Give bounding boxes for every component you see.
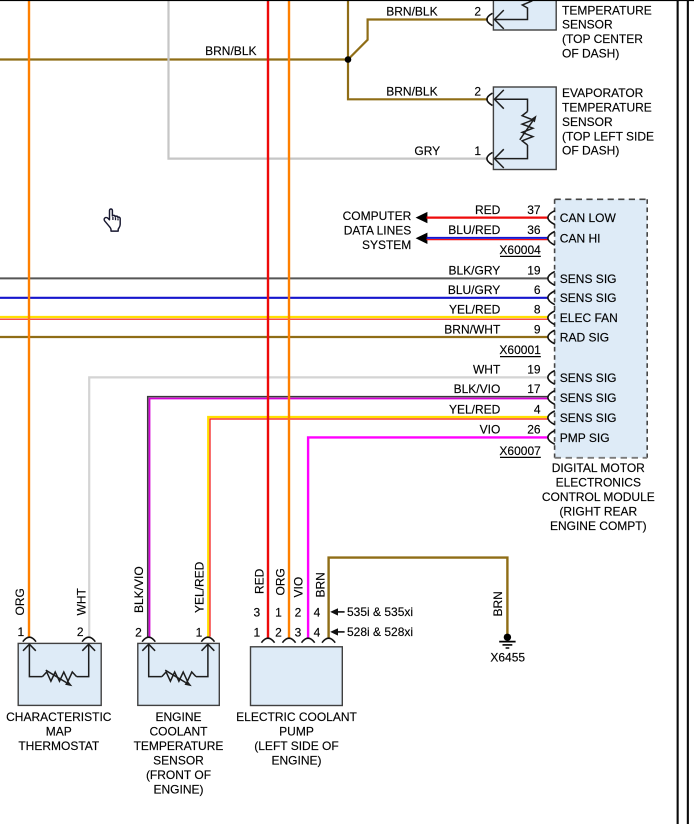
wire BRN/BLK to evaporator sensor pin 2 [348, 60, 488, 100]
svg-text:BRN/BLK: BRN/BLK [386, 4, 437, 18]
svg-text:ORG: ORG [274, 568, 288, 595]
svg-text:SENS SIG: SENS SIG [560, 391, 617, 405]
svg-text:SENSOR: SENSOR [153, 754, 204, 768]
svg-text:2: 2 [474, 4, 481, 18]
svg-text:ENGINE COMPT): ENGINE COMPT) [550, 519, 647, 533]
svg-text:9: 9 [534, 322, 541, 336]
wire VIO PMP SIG to pump pin 3 [308, 437, 548, 637]
svg-text:ELECTRONICS: ELECTRONICS [556, 476, 641, 490]
connector X60001 [499, 343, 541, 357]
svg-text:BRN: BRN [313, 572, 327, 597]
svg-text:26: 26 [527, 423, 541, 437]
svg-text:ENGINE): ENGINE) [271, 754, 321, 768]
svg-text:4: 4 [314, 625, 321, 639]
svg-text:COMPUTER: COMPUTER [343, 209, 412, 223]
ground X6455 [490, 634, 525, 665]
svg-text:DATA LINES: DATA LINES [344, 223, 412, 237]
svg-text:SENS SIG: SENS SIG [560, 272, 617, 286]
svg-text:WHT: WHT [473, 363, 501, 377]
wire BRN pump pin 4 to ground [329, 558, 508, 638]
svg-text:1: 1 [196, 626, 203, 640]
svg-text:4: 4 [534, 402, 541, 416]
svg-text:SENSOR: SENSOR [562, 115, 613, 129]
svg-text:RAD SIG: RAD SIG [560, 330, 609, 344]
svg-text:SYSTEM: SYSTEM [362, 238, 411, 252]
svg-text:2: 2 [135, 626, 142, 640]
svg-text:19: 19 [527, 363, 541, 377]
node 528i & 528xi pin arrow [330, 625, 413, 639]
temperature sensor (top center of dash), partially visible [487, 0, 652, 61]
svg-text:ELECTRIC COOLANT: ELECTRIC COOLANT [236, 710, 357, 724]
svg-text:4: 4 [314, 605, 321, 619]
svg-text:ORG: ORG [13, 588, 27, 615]
svg-text:BRN/WHT: BRN/WHT [444, 322, 501, 336]
svg-text:BRN: BRN [491, 591, 505, 616]
svg-text:(LEFT SIDE OF: (LEFT SIDE OF [254, 739, 338, 753]
electric coolant pump [236, 605, 357, 767]
svg-text:OF DASH): OF DASH) [562, 144, 619, 158]
svg-text:TEMPERATURE: TEMPERATURE [562, 3, 652, 17]
svg-text:2: 2 [474, 85, 481, 99]
svg-text:PMP SIG: PMP SIG [560, 431, 610, 445]
svg-text:VIO: VIO [291, 577, 305, 598]
svg-text:8: 8 [534, 302, 541, 316]
svg-text:535i & 535xi: 535i & 535xi [347, 605, 413, 619]
wire ORG to pump [288, 0, 290, 638]
svg-text:3: 3 [254, 605, 261, 619]
svg-text:CAN HI: CAN HI [560, 232, 601, 246]
svg-text:BLK/VIO: BLK/VIO [454, 382, 501, 396]
svg-text:ELEC FAN: ELEC FAN [560, 311, 618, 325]
wire RED to pump [267, 0, 269, 638]
svg-text:X60004: X60004 [499, 243, 541, 257]
svg-text:DIGITAL MOTOR: DIGITAL MOTOR [552, 461, 645, 475]
svg-text:BLU/GRY: BLU/GRY [448, 283, 500, 297]
connector X60004 [499, 243, 541, 257]
svg-text:(FRONT OF: (FRONT OF [146, 768, 211, 782]
svg-text:GRY: GRY [414, 144, 440, 158]
svg-text:BLU/RED: BLU/RED [448, 223, 500, 237]
svg-text:1: 1 [474, 144, 481, 158]
svg-text:TEMPERATURE: TEMPERATURE [562, 101, 652, 115]
svg-text:1: 1 [18, 625, 25, 639]
mouse cursor (hand pointer) [104, 209, 120, 231]
svg-text:X60001: X60001 [499, 343, 541, 357]
svg-text:ENGINE): ENGINE) [153, 783, 203, 797]
svg-text:17: 17 [527, 382, 541, 396]
DME module caption [542, 461, 655, 533]
svg-text:VIO: VIO [480, 423, 501, 437]
svg-text:X6455: X6455 [490, 651, 525, 665]
evaporator temperature sensor [487, 86, 654, 169]
svg-text:2: 2 [77, 625, 84, 639]
wire BLK/GRY SENS SIG [0, 277, 549, 279]
svg-text:BRN/BLK: BRN/BLK [205, 44, 256, 58]
svg-text:(TOP LEFT SIDE: (TOP LEFT SIDE [562, 129, 654, 143]
svg-text:BLK/GRY: BLK/GRY [448, 264, 500, 278]
svg-text:(RIGHT REAR: (RIGHT REAR [559, 505, 637, 519]
svg-text:6: 6 [534, 283, 541, 297]
wire YEL/RED SENS SIG to ECT sensor pin 1 [208, 417, 548, 637]
engine coolant temperature sensor [134, 626, 224, 797]
svg-text:YEL/RED: YEL/RED [449, 302, 501, 316]
wire YEL/RED ELEC FAN [0, 316, 549, 318]
svg-text:SENS SIG: SENS SIG [560, 411, 617, 425]
wire GRY to evaporator sensor pin 1 [169, 0, 489, 159]
svg-text:SENSOR: SENSOR [562, 18, 613, 32]
svg-text:BLK/VIO: BLK/VIO [132, 566, 146, 613]
svg-text:3: 3 [295, 625, 302, 639]
svg-text:YEL/RED: YEL/RED [193, 561, 207, 613]
wire BRN/WHT RAD SIG [0, 336, 549, 338]
svg-text:MAP: MAP [46, 725, 72, 739]
svg-text:ENGINE: ENGINE [155, 710, 201, 724]
wire BLK/VIO SENS SIG to ECT sensor pin 2 [148, 397, 549, 637]
svg-text:YEL/RED: YEL/RED [449, 402, 501, 416]
svg-text:SENS SIG: SENS SIG [560, 291, 617, 305]
wire RED CAN LOW with arrow to computer data lines [416, 203, 549, 223]
svg-text:TEMPERATURE: TEMPERATURE [134, 739, 224, 753]
svg-text:19: 19 [527, 264, 541, 278]
svg-text:1: 1 [254, 625, 261, 639]
node COMPUTER DATA LINES SYSTEM [343, 209, 412, 252]
svg-text:CHARACTERISTIC: CHARACTERISTIC [6, 710, 112, 724]
node 535i & 535xi pin arrow [330, 605, 413, 619]
DME module (dashed box) [548, 199, 647, 458]
node junction dot [345, 56, 352, 63]
svg-text:PUMP: PUMP [279, 725, 314, 739]
characteristic map thermostat [6, 625, 112, 753]
wire BLU/GRY SENS SIG [0, 297, 549, 299]
svg-text:36: 36 [527, 223, 541, 237]
svg-text:CAN LOW: CAN LOW [560, 211, 617, 225]
svg-text:RED: RED [475, 203, 501, 217]
svg-text:OF DASH): OF DASH) [562, 47, 619, 61]
connector X60007 [499, 444, 541, 458]
wire BLU/RED CAN HI with arrow [416, 223, 549, 244]
wire ORG to thermostat pin 1 [28, 0, 30, 637]
svg-text:X60007: X60007 [499, 444, 541, 458]
svg-text:RED: RED [253, 568, 267, 594]
svg-text:2: 2 [275, 625, 282, 639]
wire WHT SENS SIG to thermostat pin 2 [89, 377, 548, 636]
svg-text:2: 2 [295, 605, 302, 619]
wire BRN/BLK to temperature sensor pin 2 [348, 20, 488, 60]
svg-text:37: 37 [527, 203, 541, 217]
svg-text:COOLANT: COOLANT [149, 725, 208, 739]
svg-text:(TOP CENTER: (TOP CENTER [562, 32, 643, 46]
wire BRN/BLK bus from left [0, 58, 348, 60]
svg-text:528i & 528xi: 528i & 528xi [347, 625, 413, 639]
wire BRN/BLK branch up [347, 0, 349, 60]
svg-text:CONTROL MODULE: CONTROL MODULE [542, 490, 655, 504]
svg-text:BRN/BLK: BRN/BLK [386, 85, 437, 99]
svg-text:WHT: WHT [74, 588, 88, 616]
svg-text:SENS SIG: SENS SIG [560, 371, 617, 385]
svg-text:THERMOSTAT: THERMOSTAT [18, 739, 100, 753]
svg-text:1: 1 [275, 605, 282, 619]
svg-text:EVAPORATOR: EVAPORATOR [562, 86, 644, 100]
